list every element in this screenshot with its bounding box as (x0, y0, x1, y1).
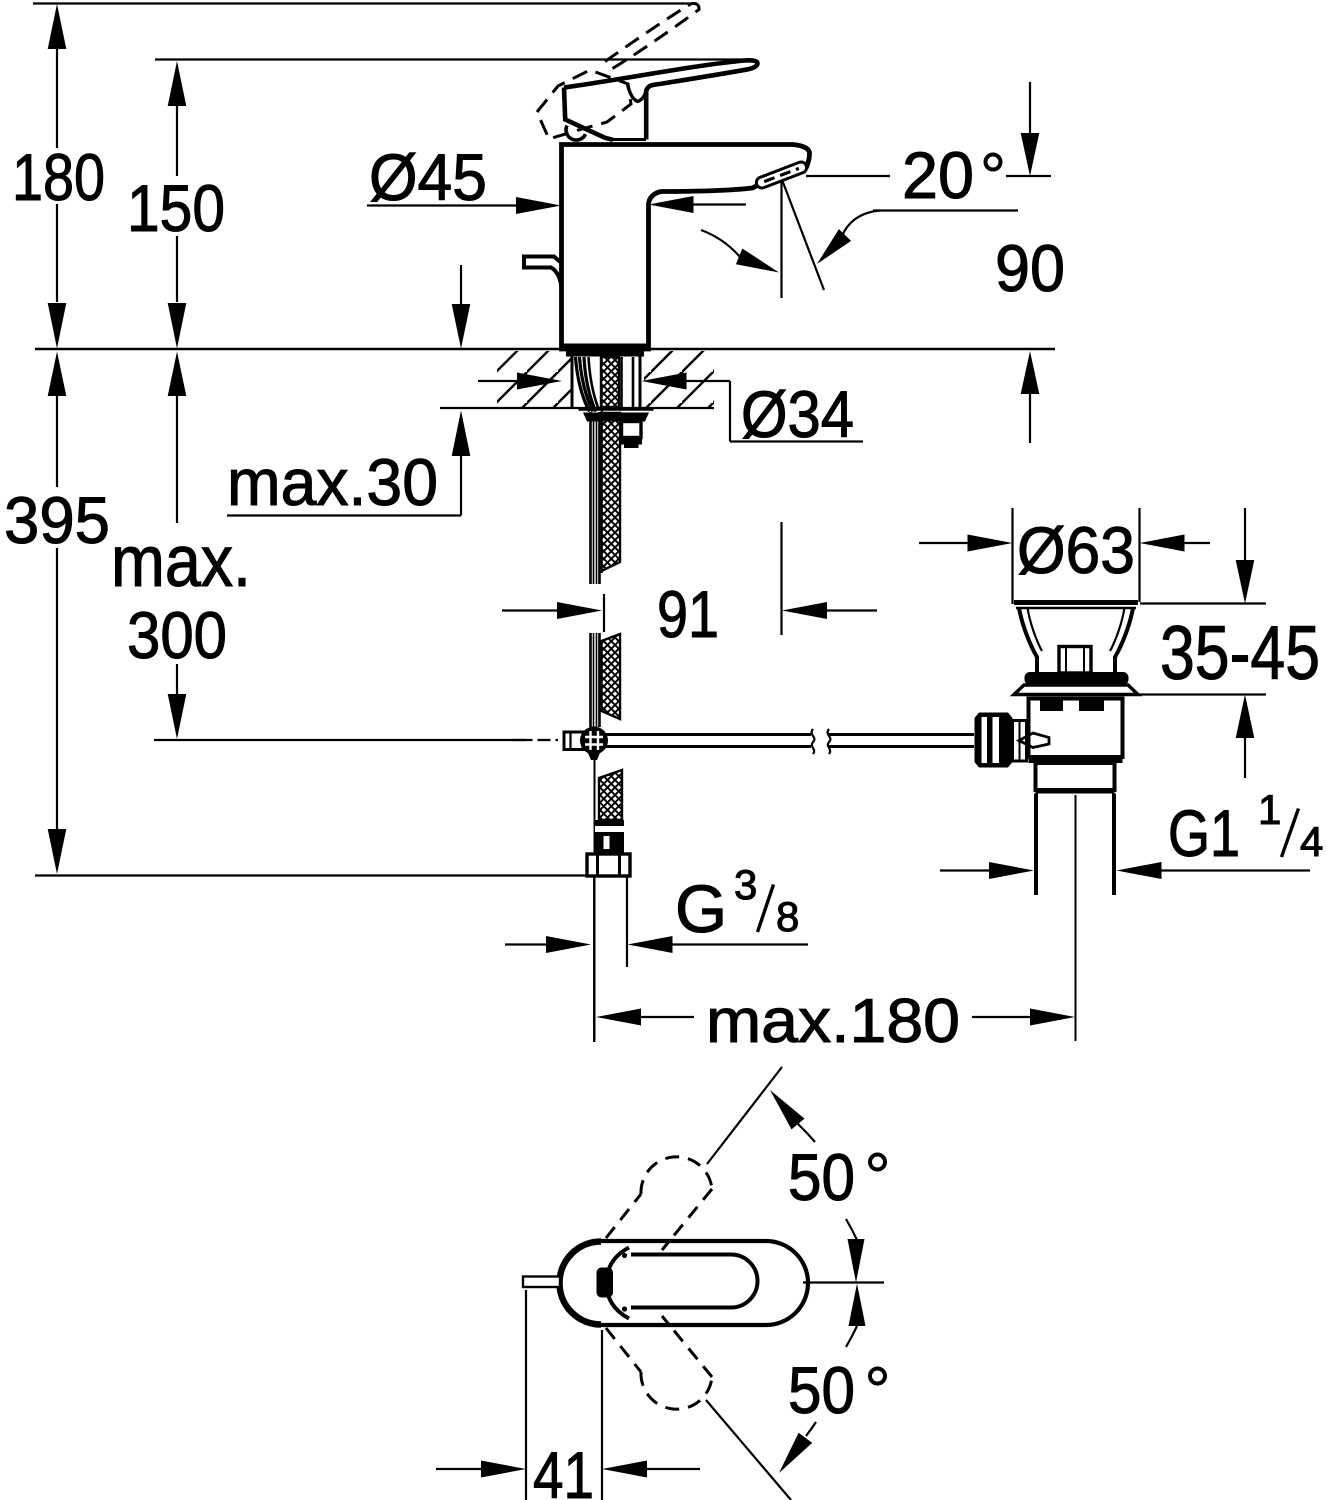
20° angle: right arc with arrowhead (842, 211, 880, 237)
datum line top (tip of raised lever) (33, 2, 697, 4)
svg-text:max.30: max.30 (227, 445, 438, 519)
dots (622, 1253, 627, 1258)
upper angle arc (798, 1124, 815, 1142)
inner capsule (lever plan) (631, 1255, 758, 1308)
pop-up rod tube lower segment (591, 633, 600, 727)
drain knurled nut (975, 713, 1013, 768)
cartridge cap line (609, 138, 646, 141)
connector nut (587, 854, 630, 876)
svg-text:max.180: max.180 (706, 987, 960, 1056)
hose end connector (595, 820, 624, 854)
aerator detail (755, 160, 808, 189)
pop-up rod tube below counter (upper) (591, 412, 600, 584)
svg-text:90: 90 (995, 231, 1065, 305)
datum line at max.300 level (154, 739, 530, 741)
svg-text:41: 41 (533, 1438, 594, 1500)
lever ball arc (566, 126, 585, 141)
braided hose middle segment (602, 634, 621, 719)
dimension Ø45 (367, 196, 746, 214)
pull rod knob at faucet left (524, 257, 562, 288)
G3/8 thread tube (593, 876, 595, 1042)
drain body (1029, 699, 1123, 758)
drain tailpipe (1034, 794, 1038, 896)
svg-text:300: 300 (127, 598, 227, 672)
lever handle raised (dashed) (537, 3, 699, 139)
svg-text:20: 20 (902, 138, 974, 212)
mounting flange under counter (579, 408, 654, 411)
lower 50 deg line (706, 1400, 791, 1500)
rod end cap (564, 732, 583, 750)
braided hose in shank (601, 357, 619, 407)
dimension 35-45 (1140, 602, 1266, 604)
svg-text:max.: max. (111, 522, 251, 602)
svg-text:G1: G1 (1168, 796, 1240, 870)
svg-text:50: 50 (788, 1140, 855, 1214)
20° angle: slanted stream line (783, 181, 825, 290)
black slot (597, 1268, 614, 1298)
dash-dot centerline left of rod (512, 739, 563, 741)
datum line at hose ends (395) (35, 874, 586, 876)
dimension G3/8 (505, 936, 808, 953)
dashed lever rotated down (606, 1316, 712, 1409)
threaded rod in shank (620, 357, 623, 409)
faucet shank hole walls (571, 352, 574, 408)
countertop hatch right (644, 351, 714, 407)
svg-text:395: 395 (4, 483, 110, 557)
dimension 395 vertical (48, 352, 67, 875)
dimension 180 vertical (48, 4, 67, 349)
Ø63 extension lines (1011, 508, 1013, 604)
pipe break symbol (812, 729, 815, 754)
dimension Ø34 (478, 373, 863, 442)
drain flange (1014, 600, 1138, 605)
svg-text:Ø63: Ø63 (1017, 513, 1135, 587)
dimension 150 vertical (168, 61, 187, 349)
lever wedge (body of lever) (564, 88, 613, 140)
braided hose lower segment (599, 770, 622, 820)
countertop hatch left (497, 351, 571, 407)
dimension G1 1/4 (940, 862, 1310, 879)
svg-text:G: G (675, 872, 727, 947)
faucet base thick edge (560, 344, 650, 350)
dimension max.180 (596, 1009, 1075, 1026)
dimension 91 (502, 522, 877, 635)
tee ball joint (580, 727, 608, 755)
drain neck (1019, 608, 1037, 674)
centerline right (803, 1281, 884, 1283)
dimension max.300 vertical (168, 352, 187, 740)
svg-text:Ø34: Ø34 (741, 377, 854, 451)
svg-text:150: 150 (127, 171, 225, 245)
countertop top surface line (35, 348, 1055, 351)
dimension 41 (436, 1290, 700, 1500)
svg-text:4: 4 (1300, 818, 1323, 865)
20° angle: vertical reference line (780, 179, 782, 298)
thick left arc (559, 1242, 601, 1325)
mounting stud and nut (622, 422, 642, 438)
lever inner gap curve (628, 84, 647, 101)
datum line 150 (tip of lever) (155, 58, 753, 60)
20° leader lines (806, 175, 890, 177)
lever front cap arc (607, 1248, 630, 1319)
lower angle arc (846, 1326, 857, 1347)
lever tip inside drain (1019, 733, 1049, 748)
upper 50 deg line (707, 1067, 782, 1164)
flexible hose curves in shank (576, 357, 590, 412)
svg-text:3: 3 (734, 861, 757, 908)
svg-text:8: 8 (776, 893, 799, 940)
20° angle: left arc with arrowhead (701, 230, 740, 257)
dashed lever rotated up (606, 1157, 712, 1250)
pull rod plan (523, 1277, 560, 1288)
outer capsule of handle plan (560, 1241, 808, 1325)
shank top black band (566, 349, 644, 357)
svg-text:91: 91 (657, 577, 719, 651)
svg-text:180: 180 (12, 140, 105, 214)
drain lower body (1036, 763, 1115, 790)
dimension max.30 (227, 265, 470, 516)
svg-text:35-45: 35-45 (1160, 611, 1320, 696)
svg-text:Ø45: Ø45 (369, 140, 487, 214)
thin rod below tee (594, 757, 596, 1042)
svg-text:50: 50 (788, 1353, 855, 1427)
pop-up rod horizontal to drain (567, 733, 811, 736)
collar (1013, 721, 1027, 762)
hose centerline dashed (601, 352, 603, 574)
lever handle (solid, rest position) (564, 60, 757, 139)
svg-text:1: 1 (1258, 786, 1281, 833)
drain lower flange (1014, 685, 1138, 695)
dimension Ø63 arrows (919, 542, 968, 544)
drain O-ring (1025, 672, 1129, 685)
dimension 90 (1021, 82, 1040, 443)
countertop bottom surface line (440, 407, 714, 409)
faucet body and spout (562, 145, 810, 350)
braided hose upper segment (602, 413, 621, 571)
drain mid knob (1059, 647, 1091, 674)
